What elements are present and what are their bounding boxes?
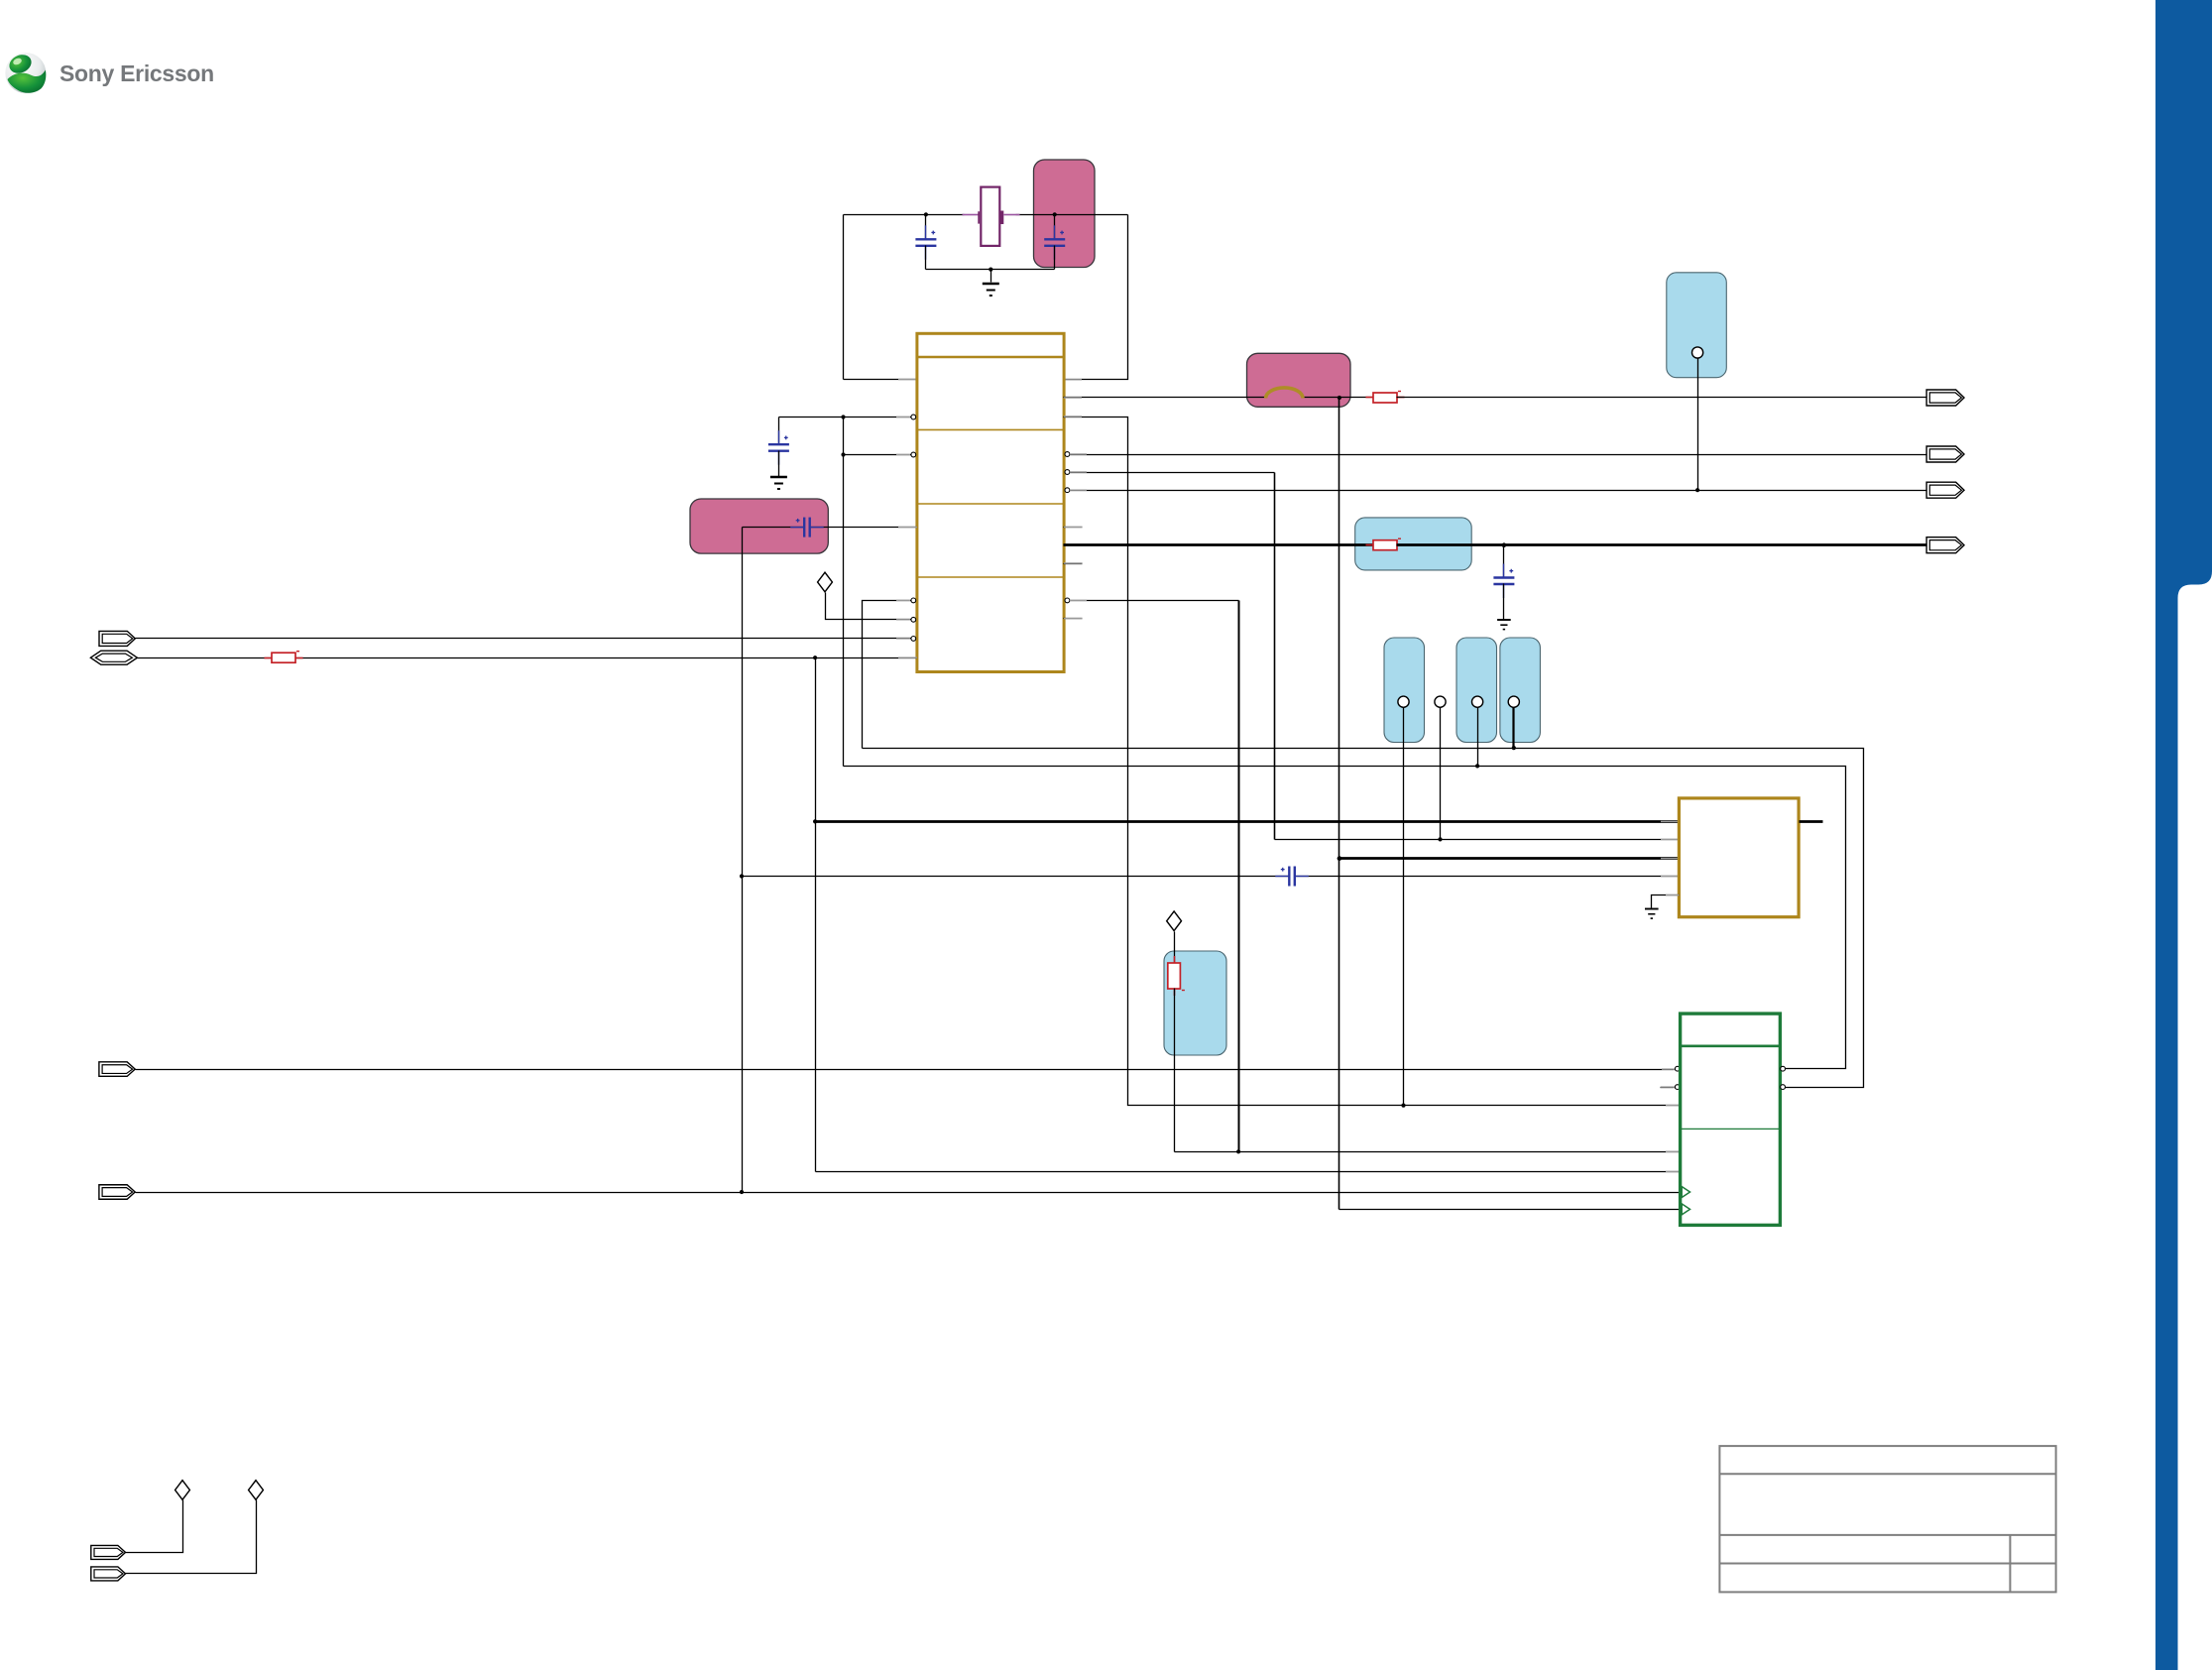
capacitor C6 (1289, 867, 1295, 887)
resistor R2 (265, 657, 273, 659)
wire: vertical branch x850 (843, 417, 845, 767)
wire: net U1 right 420 to U3 (1064, 417, 1681, 1106)
resistor R4 (1366, 544, 1374, 546)
highlight box (blue) test point TP4 (1456, 638, 1497, 743)
ferrite bead FB1 arc (1266, 388, 1303, 399)
pin bubble U1 right 458 (1065, 452, 1070, 457)
wire: net 754 (863, 749, 1864, 1088)
junction (813, 656, 817, 659)
title block table (1719, 1446, 2055, 1592)
stub pin U1 right 624 (1064, 618, 1083, 620)
junction C1-top (924, 212, 928, 216)
ground for U2 (1645, 909, 1659, 919)
pin bubble U3 right 1078 (1781, 1066, 1786, 1071)
test point TP3 circle (1398, 696, 1409, 707)
node diamond D2 (249, 1481, 264, 1500)
wire: net U1 right 401 with ferrite (1064, 397, 1266, 399)
capacitor C5 (1503, 545, 1505, 578)
test point TP2b circle (1435, 696, 1446, 707)
stub U3 pin2 (1661, 1087, 1675, 1089)
capacitor C5 (1493, 578, 1514, 585)
pin bubble U1 right 494 (1065, 488, 1070, 493)
wire: diamond stem (1174, 932, 1176, 951)
highlight box (blue) test point TP5 (1500, 638, 1541, 743)
wire: vertical x1351 to IC3 clock (1339, 398, 1340, 1210)
junction (813, 819, 817, 823)
resistor R3 (1366, 397, 1374, 399)
wire: IN3 to U3 pin1 (136, 1069, 1675, 1071)
junction (740, 1190, 744, 1194)
stub pin U1 right 531 (1064, 527, 1083, 529)
pin bubble U1 left 644 (911, 637, 916, 642)
ground for crystal caps (983, 284, 999, 296)
pin bubble U1 left 458 (911, 452, 916, 457)
wire: IN4 to U3 clk (136, 1192, 1681, 1194)
off-page connector IN6 (91, 1567, 126, 1581)
junction (1695, 488, 1699, 492)
node diamond 3 (1167, 911, 1182, 931)
wire: net 772 (844, 767, 1846, 1069)
wire: IN6 to diamond D2 (126, 1500, 257, 1574)
pin bubble U1 left 605 (911, 598, 916, 603)
junction (740, 874, 744, 878)
test point TP4 circle (1472, 696, 1483, 707)
highlight box (blue) test point TP1 (1667, 273, 1727, 378)
junction (1475, 764, 1479, 768)
test point TP1 circle (1692, 347, 1703, 358)
capacitor C1 (925, 215, 927, 240)
junction C2-top (1053, 212, 1057, 216)
junction (1236, 1149, 1240, 1153)
off-page connector IN5 (91, 1545, 126, 1559)
wire: XTAL1 net top (844, 214, 965, 216)
ground for C5 (1497, 620, 1511, 630)
pin bubble U1 left 420 (911, 415, 916, 419)
capacitor C3 (778, 417, 780, 445)
svg-text:Sony Ericsson: Sony Ericsson (59, 60, 214, 86)
capacitor C1 (915, 239, 936, 246)
highlight box (blue) around resistor R5 (1164, 951, 1226, 1055)
junction (1438, 837, 1442, 841)
pin bubble U1 right 605 (1065, 598, 1070, 603)
wire: thick branch to U2 (1339, 857, 1680, 860)
op IC U3 (green) (1681, 1014, 1781, 1225)
highlight box (blue) test point TP3 (1384, 638, 1425, 743)
highlight box (pink) around C2 / crystal load cap (1034, 160, 1096, 268)
clock pin triangle 2 (1682, 1204, 1689, 1215)
wire: crystal purple leads (963, 214, 979, 216)
capacitor C3 (768, 444, 789, 451)
wire: left loop vertical (843, 215, 845, 380)
wire: to IC1 XTAL pin (844, 379, 917, 381)
wire: x822 to U3 pin5 (816, 1171, 1681, 1173)
wire: U1 pin 605 to branch (863, 601, 911, 749)
off-page connector IN3 (99, 1062, 135, 1077)
pin bubble U1 left 625 (911, 617, 916, 622)
off-page connector OUT3 (1926, 482, 1964, 498)
wire: IN1 to U1 (136, 638, 911, 640)
junction (841, 415, 845, 418)
op IC U2 (gold, right) (1679, 798, 1799, 917)
wire: cap common bottom (926, 269, 1055, 271)
junction (1401, 1104, 1405, 1108)
pin bubble U3 right 1096 (1781, 1085, 1786, 1090)
highlight box (pink) around ferrite bead FB1 (1247, 353, 1351, 407)
node diamond D1 (175, 1481, 190, 1500)
wire: ground stub (990, 270, 992, 283)
wire: net x748 to U2 pin4 with series cap C6 (743, 876, 1290, 878)
junction (1338, 856, 1342, 861)
off-page connector IO2 (90, 651, 137, 664)
junction (1502, 542, 1507, 547)
pin bubble U3 left 1096 (1675, 1085, 1680, 1090)
off-page connector IN4 (99, 1185, 135, 1200)
off-page connector OUT4 (1926, 537, 1964, 553)
resistor R5 (vertical) (1174, 951, 1176, 963)
wire: R5 net to U3 pin5 (1175, 1151, 1681, 1153)
off-page connector IN1 (99, 631, 135, 646)
resistor R2 (138, 657, 917, 659)
highlight box (pink) around series capacitor C4 (690, 499, 828, 553)
capacitor C2 (1054, 215, 1056, 240)
ground for C3 (770, 477, 787, 489)
wire: right loop down (1064, 215, 1128, 380)
wire: thick net to U2 pin1 (816, 820, 1680, 823)
crystal X1 (981, 187, 999, 246)
off-page connector OUT2 (1926, 446, 1964, 462)
clock pin triangle 1 (1682, 1187, 1689, 1198)
wire: IN5 to diamond D1 (126, 1500, 183, 1553)
wire: vertical x822 (815, 658, 817, 1172)
wire: to U1 pin 458 (844, 454, 911, 456)
capacitor C2 (1044, 239, 1065, 246)
test point TP5 circle (1508, 696, 1519, 707)
wire: series cap net (743, 527, 805, 529)
wire: diamond to U1 pin 625 (826, 593, 911, 620)
resistor R5 (1174, 956, 1176, 963)
wire: C3 to U1 pin (779, 417, 911, 418)
junction (841, 452, 845, 456)
op IC U1 (main, gold) (917, 333, 1064, 671)
capacitor C4 (804, 518, 810, 537)
wire: vertical x748 (742, 528, 744, 1192)
junction (1512, 746, 1516, 750)
off-page connector OUT1 (1926, 390, 1964, 406)
wire: thick net 550 (1064, 543, 1373, 546)
stub pin U1 right 568 (1064, 563, 1083, 565)
pin bubble U1 right 476 (1065, 470, 1070, 475)
wire: U2 ground pin (1652, 895, 1680, 908)
blue side bar (2155, 0, 2212, 1670)
node diamond near U1 (818, 572, 833, 592)
wire: U2 right stub (thick) (1800, 820, 1823, 823)
junction (1338, 396, 1341, 400)
pin bubble U3 left 1078 (1675, 1066, 1680, 1071)
highlight box (blue) around resistor R4 (1355, 518, 1472, 570)
